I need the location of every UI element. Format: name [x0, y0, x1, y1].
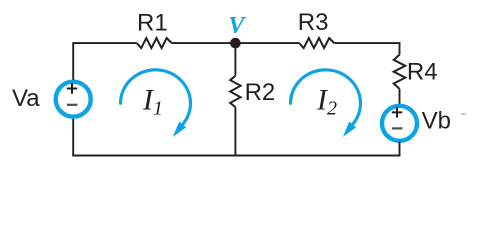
wire middle vertical bottom — [234, 107, 236, 156]
wire left-bottom vertical — [72, 119, 74, 157]
source Va circle — [56, 82, 91, 117]
svg-text:R4: R4 — [407, 59, 438, 86]
mesh current I2 arrowhead — [343, 122, 356, 137]
svg-text:R3: R3 — [298, 9, 329, 36]
mesh current I2 arc — [291, 70, 361, 125]
svg-text:R1: R1 — [137, 10, 168, 37]
wire Vb to bottom — [399, 142, 401, 157]
resistor R4 — [394, 55, 406, 89]
wire top-middle — [172, 42, 299, 44]
resistor R3 — [299, 38, 334, 48]
mesh current I1 arc — [121, 70, 191, 125]
Va plus sign — [67, 83, 77, 93]
node V junction dot — [230, 38, 241, 49]
wire R4 to Vb — [399, 89, 401, 105]
svg-text:Va: Va — [12, 85, 40, 112]
resistor R2 — [230, 76, 240, 107]
Va minus sign — [67, 104, 77, 106]
resistor R1 — [137, 38, 172, 48]
Vb plus sign — [392, 107, 402, 117]
svg-text:V: V — [228, 13, 246, 39]
svg-text:I2: I2 — [316, 84, 337, 120]
source Vb circle — [382, 106, 417, 141]
Vb minus sign — [392, 127, 402, 129]
svg-text:I1: I1 — [142, 84, 163, 120]
wire top-left horizontal — [73, 42, 137, 44]
svg-text:R2: R2 — [245, 79, 276, 106]
wire bottom horizontal — [72, 155, 400, 157]
wire right-top vertical — [399, 42, 401, 54]
wire left-top vertical — [72, 42, 74, 80]
stray mark right of Vb — [461, 113, 466, 115]
svg-text:Vb: Vb — [422, 108, 451, 135]
mesh current I1 arrowhead — [173, 122, 186, 137]
wire top-right horizontal — [334, 42, 400, 44]
wire middle vertical top — [234, 43, 236, 76]
